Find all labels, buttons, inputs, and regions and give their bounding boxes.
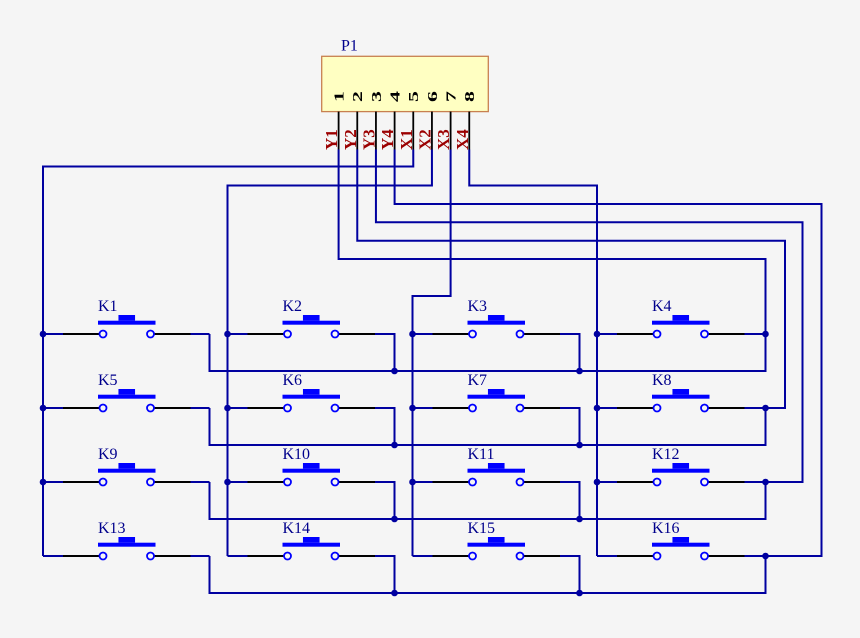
- wire K6 left pin to column bus: [228, 407, 248, 409]
- wire K1 left pin to column bus: [43, 333, 63, 335]
- switch K15: [433, 520, 561, 560]
- wire K7 left pin to column bus: [413, 407, 433, 409]
- wire K2 left pin to column bus: [228, 333, 248, 335]
- junction row 4 under-bus drop: [576, 590, 583, 597]
- junction row 4 right riser: [762, 553, 769, 560]
- wire K9 right pin to row bus: [191, 481, 210, 483]
- svg-text:K13: K13: [98, 520, 126, 537]
- wire K5 right pin to row bus: [191, 407, 210, 409]
- junction column 2 row 2: [224, 405, 231, 412]
- switch K4: [617, 298, 745, 338]
- wire K4 left pin to column bus: [597, 333, 617, 335]
- junction column 4 row 1: [594, 331, 601, 338]
- junction column 1 row 2: [40, 405, 47, 412]
- wire K13 left pin to column bus: [43, 555, 63, 557]
- svg-text:K12: K12: [652, 446, 680, 463]
- wire net Y1 from pin to row: [339, 150, 766, 335]
- wire K11 right pin to row bus: [560, 482, 580, 519]
- wire K9 left pin to column bus: [43, 481, 63, 483]
- connector P1 body: [322, 56, 489, 111]
- svg-text:X4: X4: [453, 129, 472, 150]
- junction column 1 row 3: [40, 479, 47, 486]
- junction row 3 right riser: [762, 479, 769, 486]
- switch K7: [433, 372, 561, 412]
- svg-text:X1: X1: [397, 129, 416, 150]
- svg-text:K4: K4: [652, 298, 672, 315]
- wire K15 left pin to column bus: [413, 555, 433, 557]
- switch K12: [617, 446, 745, 486]
- wire K2 right pin to row bus: [375, 334, 395, 371]
- wire K6 right pin to row bus: [375, 408, 395, 445]
- wire K14 right pin to row bus: [375, 556, 395, 593]
- wire K12 right pin to row bus: [745, 481, 766, 483]
- switch K13: [63, 520, 191, 560]
- junction row 2 under-bus drop: [391, 442, 398, 449]
- pin 4 of P1: [394, 112, 396, 150]
- wire K8 left pin to column bus: [597, 407, 617, 409]
- pin 5 of P1: [412, 112, 414, 150]
- wire net Y4 from pin to row: [395, 150, 822, 557]
- svg-text:X2: X2: [415, 129, 434, 150]
- wire K11 left pin to column bus: [413, 481, 433, 483]
- junction column 4 row 3: [594, 479, 601, 486]
- switch K10: [248, 446, 376, 486]
- wire K10 left pin to column bus: [228, 481, 248, 483]
- switch K8: [617, 372, 745, 412]
- svg-text:3: 3: [369, 91, 384, 102]
- svg-text:K9: K9: [98, 446, 118, 463]
- wire net X4 column bus: [469, 150, 597, 557]
- wire row 1 under-bus net Y1: [210, 334, 766, 371]
- junction column 3 row 1: [409, 331, 416, 338]
- wire K12 left pin to column bus: [597, 481, 617, 483]
- junction row 2 right riser: [762, 405, 769, 412]
- wire K3 right pin to row bus: [560, 334, 580, 371]
- junction row 1 under-bus drop: [391, 368, 398, 375]
- wire K16 right pin to row bus: [745, 555, 766, 557]
- wire K15 right pin to row bus: [560, 556, 580, 593]
- wire net Y2 from pin to row: [357, 150, 785, 409]
- svg-text:K11: K11: [468, 446, 495, 463]
- pin 8 of P1: [468, 112, 470, 150]
- wire K14 left pin to column bus: [228, 555, 248, 557]
- wire net X1 column bus: [43, 150, 413, 557]
- svg-text:P1: P1: [341, 38, 358, 55]
- wire K5 left pin to column bus: [43, 407, 63, 409]
- switch K2: [248, 298, 376, 338]
- pin 2 of P1: [356, 112, 358, 150]
- pin 6 of P1: [431, 112, 433, 150]
- pin 1 of P1: [338, 112, 340, 150]
- wire K16 left pin to column bus: [597, 555, 617, 557]
- junction row 2 under-bus drop: [576, 442, 583, 449]
- wire K10 right pin to row bus: [375, 482, 395, 519]
- svg-text:1: 1: [332, 91, 347, 102]
- junction row 3 under-bus drop: [576, 516, 583, 523]
- svg-text:K1: K1: [98, 298, 118, 315]
- switch K5: [63, 372, 191, 412]
- switch K1: [63, 298, 191, 338]
- wire K3 left pin to column bus: [413, 333, 433, 335]
- svg-text:K8: K8: [652, 372, 672, 389]
- svg-text:K15: K15: [468, 520, 496, 537]
- junction column 4 row 2: [594, 405, 601, 412]
- svg-text:K14: K14: [283, 520, 311, 537]
- svg-text:5: 5: [406, 91, 421, 102]
- svg-text:K2: K2: [283, 298, 303, 315]
- pin 3 of P1: [375, 112, 377, 150]
- junction row 3 under-bus drop: [391, 516, 398, 523]
- wire net X3 column bus: [413, 150, 451, 557]
- wire K13 right pin to row bus: [191, 555, 210, 557]
- wire row 3 under-bus net Y3: [210, 482, 766, 519]
- svg-text:K7: K7: [468, 372, 488, 389]
- wire net X2 column bus: [228, 150, 432, 557]
- junction row 4 under-bus drop: [391, 590, 398, 597]
- wire net Y3 from pin to row: [376, 150, 803, 483]
- svg-text:K5: K5: [98, 372, 118, 389]
- wire K4 right pin to row bus: [745, 333, 766, 335]
- junction column 1 row 1: [40, 331, 47, 338]
- switch K11: [433, 446, 561, 486]
- svg-text:2: 2: [350, 91, 365, 102]
- junction row 1 under-bus drop: [576, 368, 583, 375]
- svg-text:K3: K3: [468, 298, 488, 315]
- wire K1 right pin to row bus: [191, 333, 210, 335]
- svg-text:Y1: Y1: [322, 129, 341, 150]
- wire K8 right pin to row bus: [745, 407, 766, 409]
- svg-text:7: 7: [444, 91, 459, 102]
- switch K16: [617, 520, 745, 560]
- switch K3: [433, 298, 561, 338]
- wire K7 right pin to row bus: [560, 408, 580, 445]
- junction column 2 row 1: [224, 331, 231, 338]
- junction column 2 row 3: [224, 479, 231, 486]
- junction row 1 right riser: [762, 331, 769, 338]
- svg-text:Y2: Y2: [341, 129, 360, 150]
- svg-text:K6: K6: [283, 372, 303, 389]
- svg-text:6: 6: [425, 91, 440, 102]
- svg-text:K16: K16: [652, 520, 680, 537]
- svg-text:Y3: Y3: [359, 129, 378, 150]
- svg-text:8: 8: [462, 91, 477, 102]
- switch K9: [63, 446, 191, 486]
- junction column 3 row 3: [409, 479, 416, 486]
- svg-text:4: 4: [388, 91, 403, 102]
- svg-text:X3: X3: [434, 129, 453, 150]
- wire row 2 under-bus net Y2: [210, 408, 766, 445]
- switch K6: [248, 372, 376, 412]
- svg-text:K10: K10: [283, 446, 311, 463]
- pin 7 of P1: [450, 112, 452, 150]
- wire row 4 under-bus net Y4: [210, 556, 766, 593]
- junction column 3 row 2: [409, 405, 416, 412]
- svg-text:Y4: Y4: [378, 129, 397, 150]
- switch K14: [248, 520, 376, 560]
